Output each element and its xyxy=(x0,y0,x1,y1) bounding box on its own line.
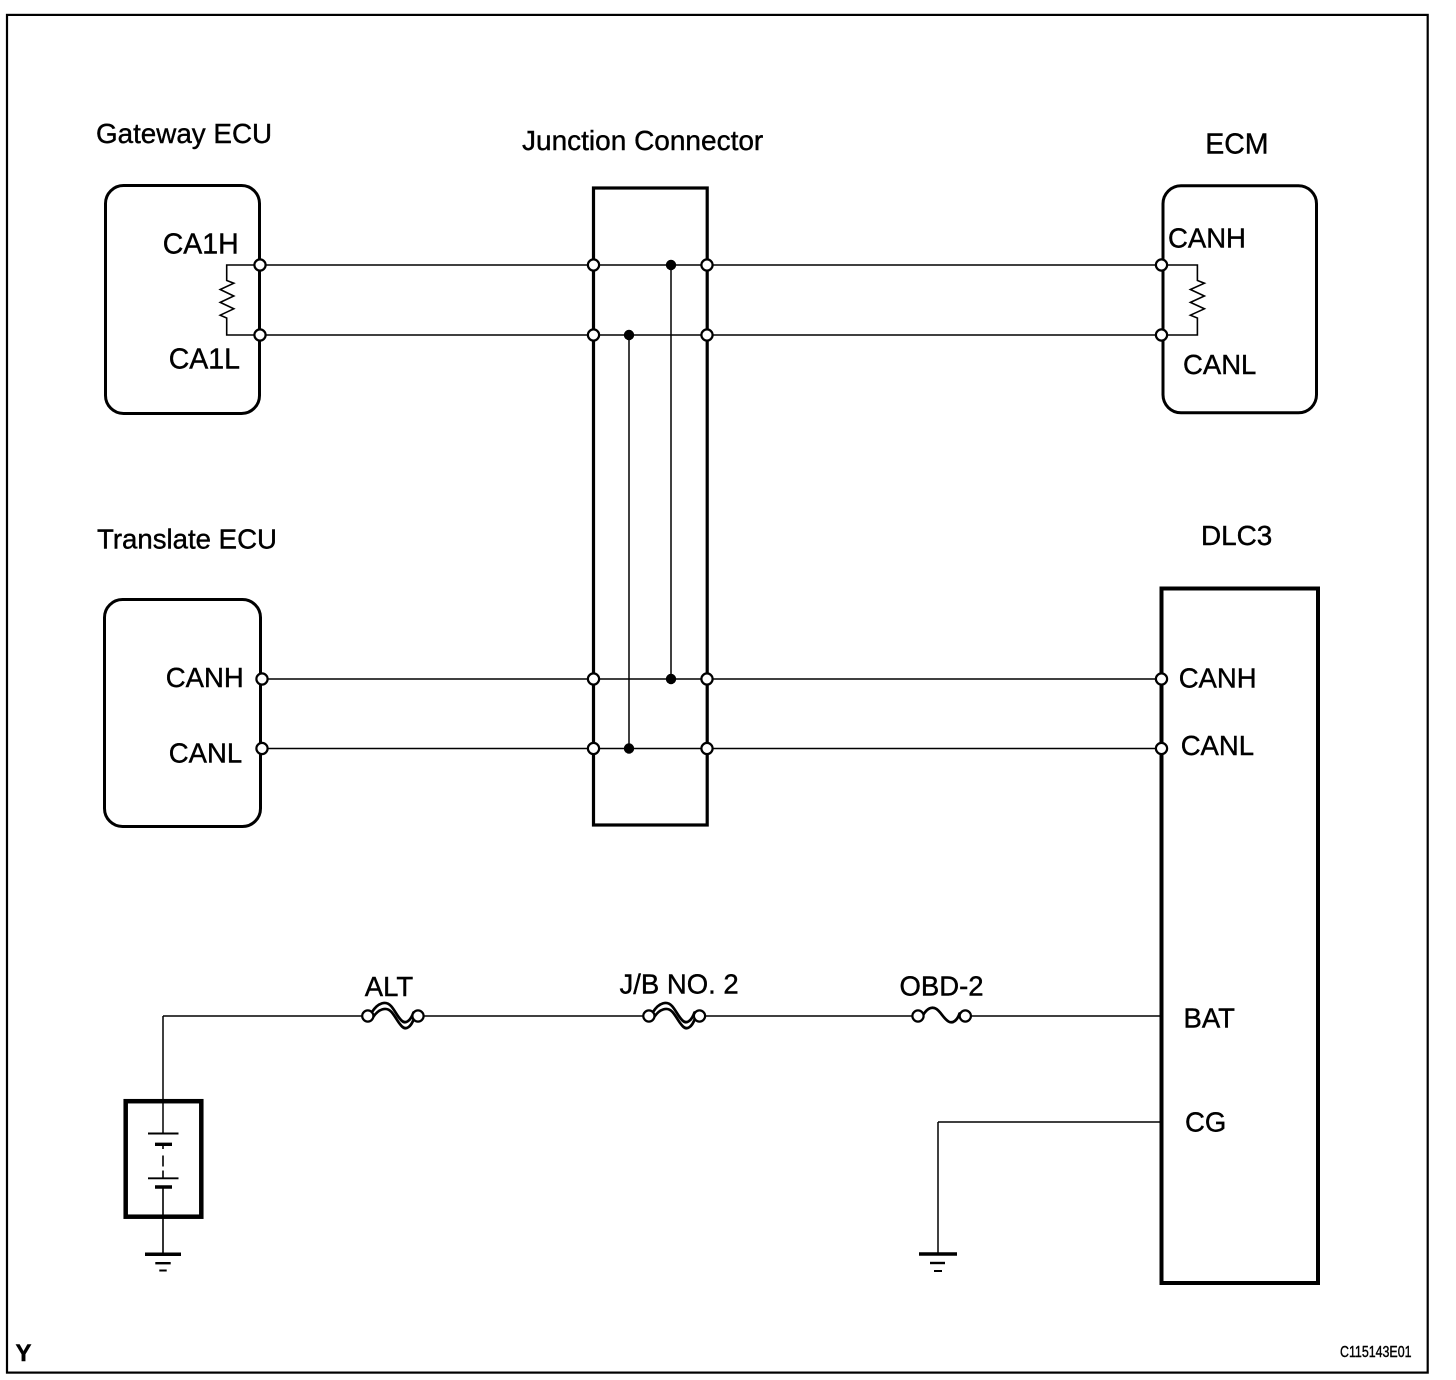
svg-text:ALT: ALT xyxy=(365,971,414,1002)
svg-text:CANH: CANH xyxy=(1168,223,1246,254)
svg-text:CG: CG xyxy=(1185,1106,1226,1137)
svg-text:Translate ECU: Translate ECU xyxy=(97,524,277,555)
svg-text:CANL: CANL xyxy=(1183,349,1256,380)
svg-text:CANL: CANL xyxy=(169,738,242,769)
svg-text:CA1L: CA1L xyxy=(169,344,240,376)
svg-text:CA1H: CA1H xyxy=(163,228,239,260)
svg-text:Y: Y xyxy=(16,1340,32,1367)
svg-text:CANH: CANH xyxy=(1179,663,1257,694)
svg-text:CANL: CANL xyxy=(1181,730,1254,761)
svg-text:BAT: BAT xyxy=(1184,1003,1236,1034)
svg-text:DLC3: DLC3 xyxy=(1201,520,1272,551)
svg-text:OBD-2: OBD-2 xyxy=(900,971,984,1002)
svg-text:C115143E01: C115143E01 xyxy=(1340,1344,1412,1361)
svg-text:Gateway ECU: Gateway ECU xyxy=(96,118,272,149)
svg-text:J/B NO. 2: J/B NO. 2 xyxy=(620,969,739,1000)
svg-text:CANH: CANH xyxy=(166,662,244,693)
svg-text:ECM: ECM xyxy=(1205,129,1268,161)
svg-text:Junction Connector: Junction Connector xyxy=(522,125,763,156)
